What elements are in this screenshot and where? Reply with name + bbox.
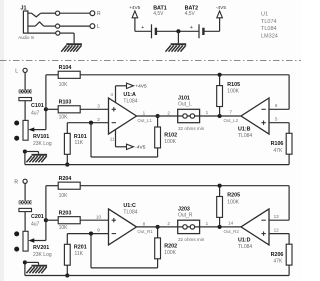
- wire top rail: [80, 185, 289, 187]
- ground (battery center): [166, 44, 187, 52]
- svg-text:TL084: TL084: [238, 244, 252, 250]
- node input junction: [44, 218, 48, 222]
- wire: [269, 75, 289, 110]
- svg-text:Out_R2: Out_R2: [224, 229, 240, 234]
- svg-text:8: 8: [143, 221, 146, 226]
- svg-text:R106: R106: [271, 141, 284, 147]
- svg-text:4,5V: 4,5V: [153, 11, 164, 17]
- svg-text:5: 5: [275, 117, 278, 122]
- svg-text:11K: 11K: [75, 140, 84, 146]
- svg-text:TL084: TL084: [123, 98, 137, 104]
- +4V5 power arrow: [127, 83, 147, 90]
- -4V5 supply arrow: [216, 5, 226, 32]
- svg-text:100K: 100K: [227, 88, 239, 94]
- svg-text:2: 2: [167, 221, 170, 226]
- capacitor C201 4u7: [19, 200, 44, 227]
- svg-text:Out_L1: Out_L1: [137, 118, 152, 123]
- resistor R204 10K: [58, 176, 80, 199]
- resistor R202 100K: [155, 227, 177, 259]
- capacitor C101 4u7: [19, 89, 44, 116]
- wire ground rail: [25, 262, 289, 275]
- node output 1: [156, 114, 160, 118]
- wire ground rail: [25, 152, 289, 165]
- node L input terminal: [15, 68, 27, 74]
- svg-text:L: L: [97, 24, 100, 30]
- node: [218, 184, 222, 188]
- svg-text:4u7: 4u7: [31, 221, 40, 227]
- svg-text:47K: 47K: [273, 148, 283, 154]
- svg-text:C101: C101: [31, 103, 44, 109]
- svg-text:R105: R105: [227, 82, 240, 88]
- svg-text:RV201: RV201: [33, 245, 49, 251]
- op-amp U1:C TL084: [109, 203, 138, 245]
- svg-text:R103: R103: [59, 100, 72, 106]
- node input junction: [44, 107, 48, 111]
- svg-text:1: 1: [143, 110, 146, 115]
- resistor R101 11K: [64, 123, 86, 165]
- svg-text:L: L: [15, 68, 18, 74]
- svg-text:Out_L2: Out_L2: [224, 118, 239, 123]
- svg-text:+: +: [190, 25, 193, 31]
- section separator line: [0, 60, 301, 62]
- wire pin 4 supply: [110, 86, 126, 103]
- svg-text:100K: 100K: [164, 139, 176, 145]
- note U1 types: [261, 11, 278, 39]
- svg-text:R204: R204: [59, 176, 72, 182]
- ground (jack): [61, 44, 82, 52]
- wire jack ring contact (L): [28, 22, 56, 26]
- wire: [135, 25, 152, 31]
- svg-text:R202: R202: [164, 243, 177, 249]
- wire pin inv: [67, 117, 108, 123]
- svg-text:R206: R206: [271, 252, 284, 258]
- wire: [46, 108, 58, 110]
- svg-text:R203: R203: [59, 210, 72, 216]
- svg-text:R201: R201: [74, 245, 87, 251]
- wire: [46, 186, 58, 221]
- svg-text:32 ohms min: 32 ohms min: [178, 126, 205, 131]
- svg-text:10: 10: [96, 214, 102, 219]
- wire: [24, 73, 26, 90]
- svg-text:C201: C201: [31, 214, 44, 220]
- wire output Out_R1: [137, 221, 178, 234]
- svg-text:23K Log: 23K Log: [33, 141, 52, 147]
- svg-text:100K: 100K: [164, 250, 176, 256]
- svg-text:+: +: [141, 25, 144, 31]
- svg-text:U1:A: U1:A: [123, 92, 136, 98]
- resistor R106 47K: [271, 133, 292, 164]
- node: [218, 114, 222, 118]
- pin label: [275, 103, 278, 108]
- resistor R104 10K: [58, 65, 80, 88]
- wire pin noninv: [269, 228, 289, 245]
- svg-text:LM324: LM324: [261, 34, 278, 40]
- svg-text:4u7: 4u7: [31, 110, 40, 116]
- wire: [200, 110, 241, 116]
- wire wiper up: [45, 109, 47, 129]
- svg-text:10K: 10K: [59, 193, 69, 199]
- node: [218, 73, 222, 77]
- potentiometer RV201 23K Log: [14, 231, 52, 257]
- battery BAT2 4,5V: [185, 5, 204, 38]
- svg-text:TL084: TL084: [261, 26, 277, 32]
- svg-text:23K Log: 23K Log: [33, 252, 52, 258]
- resistor R206 47K: [271, 244, 292, 275]
- svg-text:U1:D: U1:D: [238, 238, 251, 244]
- svg-text:J203: J203: [178, 206, 190, 212]
- svg-text:Out_L: Out_L: [178, 102, 192, 108]
- svg-text:+4V5: +4V5: [135, 84, 147, 90]
- svg-text:R: R: [14, 179, 18, 185]
- -4V5 power arrow: [127, 144, 146, 151]
- wire sleeve to ground: [60, 33, 74, 43]
- svg-text:RV101: RV101: [33, 134, 49, 140]
- svg-text:U1: U1: [261, 11, 268, 17]
- svg-text:32 ohms min: 32 ohms min: [178, 237, 205, 242]
- svg-text:2: 2: [167, 110, 170, 115]
- resistor R103 10K: [58, 100, 80, 121]
- svg-text:10K: 10K: [59, 82, 69, 88]
- wire: [156, 30, 199, 32]
- wire top rail: [80, 74, 289, 76]
- wire pin noninv: [269, 117, 289, 134]
- svg-text:100K: 100K: [227, 199, 239, 205]
- svg-text:TL084: TL084: [123, 209, 137, 215]
- svg-text:Out_R: Out_R: [178, 213, 193, 219]
- resistor R105 100K: [217, 75, 240, 116]
- wire: [46, 75, 58, 110]
- svg-text:47K: 47K: [273, 259, 283, 265]
- potentiometer RV101 23K Log: [14, 120, 52, 146]
- wire jack sleeve: [28, 32, 56, 34]
- wire jack tip contact (R): [28, 13, 56, 17]
- svg-text:13: 13: [274, 214, 280, 219]
- node: [89, 232, 93, 236]
- svg-text:1: 1: [206, 221, 209, 226]
- connector J1 (audio input jack): [18, 5, 35, 40]
- resistor R203 10K: [58, 210, 80, 231]
- node: [23, 149, 27, 153]
- svg-text:7: 7: [229, 109, 232, 114]
- pin label: [274, 214, 280, 219]
- svg-text:11: 11: [110, 137, 115, 142]
- svg-text:R205: R205: [227, 193, 240, 199]
- svg-text:Audio In: Audio In: [18, 35, 35, 40]
- wire wiper up: [45, 220, 47, 240]
- svg-text:-4V5: -4V5: [135, 145, 145, 151]
- node: [89, 121, 93, 125]
- jack switch contact L: [56, 24, 60, 28]
- svg-text:10K: 10K: [59, 225, 69, 231]
- svg-text:12: 12: [274, 228, 280, 233]
- wire: [269, 186, 289, 221]
- +4V5 supply arrow: [129, 5, 141, 32]
- svg-text:-4V5: -4V5: [216, 5, 226, 11]
- node: [65, 163, 69, 167]
- svg-text:2: 2: [97, 117, 100, 122]
- resistor R201 11K: [64, 234, 86, 276]
- svg-text:R102: R102: [164, 132, 177, 138]
- wire to ground: [177, 31, 179, 43]
- op-amp U1:D TL084: [224, 209, 270, 250]
- svg-text:1: 1: [206, 110, 209, 115]
- svg-text:J1: J1: [21, 5, 27, 11]
- ground (channel): [26, 266, 47, 274]
- wire to L terminal: [60, 25, 90, 27]
- ground (channel): [26, 155, 47, 163]
- node 0V junction: [176, 29, 180, 33]
- wire: [203, 30, 219, 32]
- wire: [24, 183, 26, 200]
- node: [65, 273, 69, 277]
- wire: [24, 101, 26, 121]
- wire feedback: [91, 234, 158, 268]
- wire: [80, 103, 108, 109]
- svg-text:14: 14: [228, 220, 234, 225]
- connector J203 (Out_R): [178, 206, 205, 242]
- wire pin 11 supply: [110, 130, 127, 147]
- terminal R: [90, 11, 101, 17]
- svg-text:Out_R1: Out_R1: [137, 229, 153, 234]
- svg-text:4: 4: [110, 92, 113, 97]
- svg-text:R: R: [97, 11, 101, 17]
- svg-text:R104: R104: [59, 65, 72, 71]
- resistor R205 100K: [217, 186, 240, 227]
- op-amp U1:A TL084: [109, 92, 138, 134]
- node output 1: [156, 225, 160, 229]
- svg-text:TL084: TL084: [238, 133, 252, 139]
- svg-text:U1:C: U1:C: [123, 203, 136, 209]
- jack switch contact R: [56, 11, 60, 15]
- jack sleeve contact: [56, 31, 60, 35]
- node: [218, 225, 222, 229]
- wire: [80, 214, 108, 220]
- wire to R terminal: [60, 12, 90, 14]
- node: [23, 260, 27, 264]
- svg-text:11K: 11K: [75, 251, 84, 257]
- svg-text:4,5V: 4,5V: [185, 11, 196, 17]
- resistor R102 100K: [155, 116, 177, 148]
- wire output Out_L1: [137, 110, 178, 123]
- svg-text:TL074: TL074: [261, 19, 277, 25]
- svg-text:U1:B: U1:B: [238, 127, 251, 133]
- wire to ground: [25, 262, 39, 264]
- svg-text:3: 3: [97, 103, 100, 108]
- wire pin inv: [67, 228, 108, 234]
- svg-text:J101: J101: [178, 96, 190, 102]
- terminal L: [90, 24, 100, 30]
- svg-text:6: 6: [275, 103, 278, 108]
- connector J101 (Out_L): [178, 96, 205, 132]
- svg-text:9: 9: [97, 228, 100, 233]
- wire feedback: [91, 123, 158, 157]
- wire: [24, 212, 26, 232]
- wire: [46, 219, 58, 221]
- battery BAT1 4,5V: [152, 5, 167, 38]
- wire: [200, 221, 241, 227]
- op-amp U1:B TL084: [224, 98, 270, 139]
- node R input terminal: [14, 179, 27, 185]
- svg-text:R101: R101: [74, 134, 87, 140]
- svg-text:10K: 10K: [59, 114, 69, 120]
- wire to ground: [25, 152, 39, 154]
